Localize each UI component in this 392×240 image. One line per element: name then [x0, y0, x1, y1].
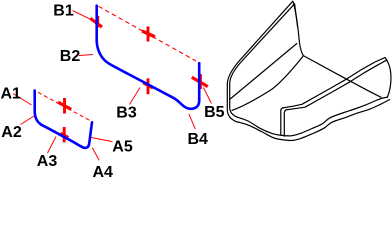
svg-text:A4: A4 [93, 164, 114, 178]
svg-text:A5: A5 [112, 139, 133, 156]
svg-text:B3: B3 [116, 104, 137, 121]
svg-text:A2: A2 [1, 124, 22, 141]
svg-text:B5: B5 [204, 104, 225, 121]
svg-text:B4: B4 [188, 131, 209, 148]
svg-text:B2: B2 [60, 48, 81, 65]
svg-text:A3: A3 [37, 153, 58, 170]
svg-text:A1: A1 [1, 86, 22, 103]
svg-text:B1: B1 [53, 2, 74, 19]
